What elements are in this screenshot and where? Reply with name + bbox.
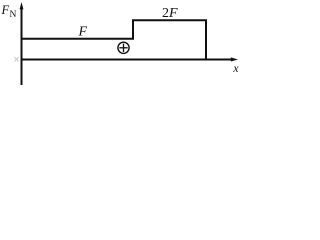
x-axis arrowhead	[231, 57, 238, 61]
svg-text:x: x	[232, 61, 239, 75]
svg-text:F: F	[78, 25, 88, 40]
faint scan artifact near origin	[15, 57, 19, 62]
x-axis	[21, 59, 234, 61]
svg-text:F: F	[1, 3, 10, 17]
y-axis arrowhead	[20, 2, 24, 9]
step curve F level	[22, 20, 207, 59]
svg-text:2F: 2F	[162, 6, 178, 21]
svg-text:N: N	[10, 10, 17, 20]
circled plus	[118, 42, 129, 53]
y-axis	[21, 6, 23, 85]
